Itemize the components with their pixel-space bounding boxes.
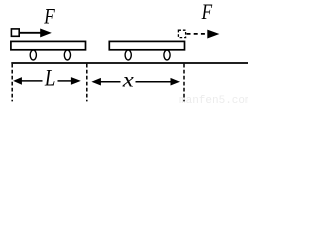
cart 1 left wheel [30,50,36,60]
distance x double arrow, left head [91,78,101,86]
cart 1 body [11,41,86,49]
force arrow F (left, solid) [19,32,41,34]
ground line [11,62,248,64]
cart 1 right wheel [64,50,70,60]
distance x arrow right shaft [136,81,171,83]
small block on cart 1 [11,29,19,36]
distance L double arrow, right head [71,77,81,85]
cart 2 right wheel [164,50,170,60]
distance L double arrow, left head [13,77,22,85]
distance x double arrow, right head [171,78,181,86]
svg-text:F: F [44,4,56,29]
cart 2 left wheel [125,50,131,60]
cart 2 body [109,41,184,49]
svg-text:F: F [201,0,213,24]
distance L arrow left shaft [21,80,43,82]
dashed ghost block (right) [178,30,185,37]
svg-text:manfen5.com: manfen5.com [179,95,248,105]
svg-text:L: L [44,66,55,91]
dashed force arrow F (right) [187,33,208,35]
svg-text:x: x [122,68,135,92]
dashed reference line (left, at cart 1 left end) [11,64,13,102]
dashed reference line (middle) [86,64,88,102]
distance x arrow left shaft [100,81,121,83]
distance L arrow right shaft [58,80,72,82]
dashed reference line (right, at cart 2 right end) [183,64,185,102]
